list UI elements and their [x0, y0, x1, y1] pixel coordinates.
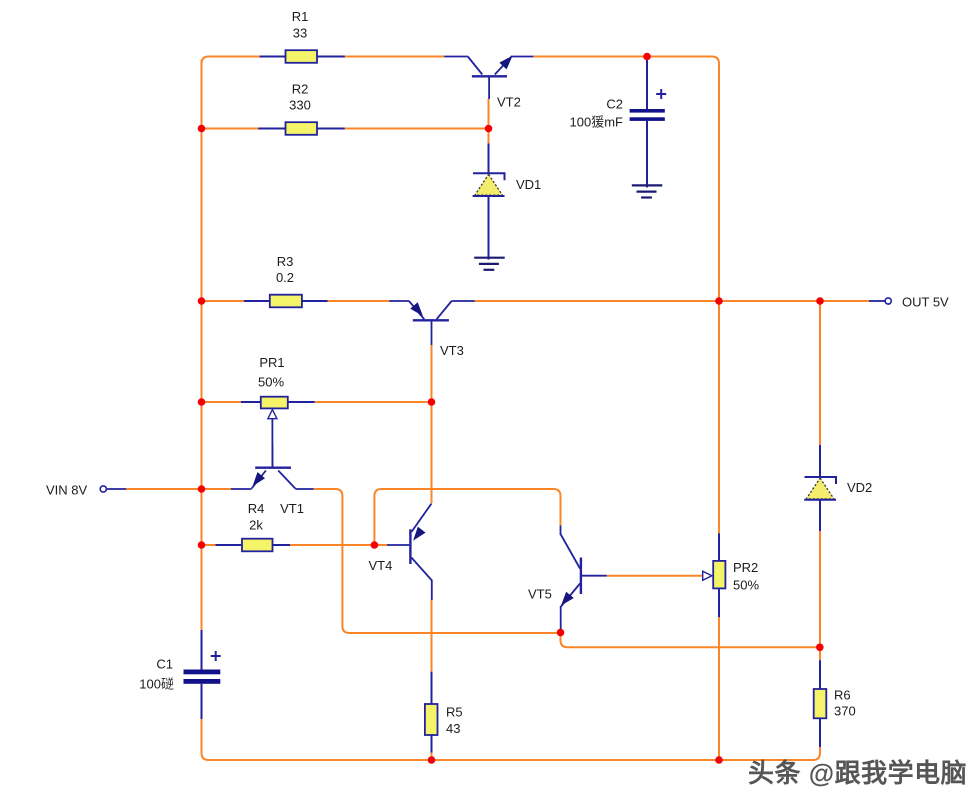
resistor R5 (vertical) [425, 672, 438, 753]
wire R2 net left segment [202, 128, 259, 130]
junction dot R4/VT4 base/wire B [371, 541, 379, 549]
svg-text:R6: R6 [834, 688, 851, 703]
svg-text:R4: R4 [248, 501, 265, 516]
junction dot R4/left rail [198, 541, 206, 549]
svg-text:头条 @跟我学电脑: 头条 @跟我学电脑 [748, 758, 967, 788]
wire R6 node to R6 top lead [819, 647, 821, 660]
svg-text:PR2: PR2 [733, 560, 758, 575]
ground symbol below C2 [632, 121, 663, 198]
potentiometer PR2 (vertical) [703, 533, 726, 617]
wire VIN terminal to left rail [126, 488, 231, 490]
junction dot VT2 base/R2/VD1 [485, 125, 493, 133]
svg-text:370: 370 [834, 704, 856, 719]
wire A: VT1 collector down and across to VT5 emitter node [314, 489, 561, 633]
terminal VIN 8V [100, 486, 126, 492]
wire VT3 base down to node [431, 345, 433, 402]
junction dot C2 tap on top rail [643, 53, 651, 61]
resistor R3 [244, 295, 327, 308]
resistor R2 [258, 122, 345, 135]
capacitor C2 (polarized) [630, 57, 667, 188]
wire OUT net VT3 collector to OUT terminal [475, 300, 869, 302]
wire PR1 net left segment [202, 401, 242, 403]
svg-text:VT3: VT3 [440, 343, 464, 358]
svg-text:330: 330 [289, 98, 311, 113]
svg-text:C1: C1 [156, 657, 173, 672]
wire VT5 base to PR2 wiper [607, 575, 703, 577]
junction dot PR1 right/VT3 base [428, 398, 436, 406]
wire top rail C2 tap to right corner down to OUT node [647, 57, 719, 302]
svg-text:VT4: VT4 [369, 558, 393, 573]
wire R4 net left segment [202, 544, 216, 546]
svg-text:33: 33 [293, 26, 307, 41]
svg-text:R5: R5 [446, 705, 463, 720]
svg-text:2k: 2k [249, 518, 263, 533]
junction dot PR1/left rail [198, 398, 206, 406]
transistor VT3 (in OUT rail, base down, mirrored) [389, 301, 475, 345]
zener diode VD2 [804, 445, 836, 531]
junction dot R2/left rail [198, 125, 206, 133]
potentiometer PR1 [241, 397, 315, 468]
wire node down to VT4 collector [431, 402, 433, 503]
ground symbol below VD1 [474, 258, 505, 270]
transistor VT4 (base left, vertical bar) [387, 504, 432, 601]
wire node to VT4 base [374, 544, 387, 546]
terminal OUT 5V [869, 298, 891, 304]
svg-text:VIN 8V: VIN 8V [46, 483, 88, 498]
wire middle rail OUT node to PR2 top [718, 301, 720, 533]
svg-text:100磀: 100磀 [139, 677, 174, 692]
wire right rail OUT node to VD2 [819, 301, 821, 445]
wire VT2 base to node [488, 99, 490, 129]
junction dot R6 top [816, 644, 824, 652]
junction dot R5 bottom rail [428, 756, 436, 764]
transistor VT2 (in top rail, base down) [444, 57, 533, 100]
svg-text:50%: 50% [733, 578, 759, 593]
junction dot OUT/right rail [816, 297, 824, 305]
wire top rail from left corner to VT2 collector [202, 57, 445, 65]
wire R5 bottom lead to bottom rail [431, 753, 433, 761]
wire middle rail PR2 bottom to bottom rail [718, 617, 720, 760]
resistor R4 [216, 539, 291, 552]
svg-text:OUT 5V: OUT 5V [902, 295, 949, 310]
svg-text:0.2: 0.2 [276, 270, 294, 285]
svg-text:R3: R3 [277, 254, 294, 269]
resistor R6 (vertical) [814, 660, 827, 747]
svg-text:PR1: PR1 [259, 355, 284, 370]
junction dot middle rail bottom [715, 756, 723, 764]
wire node to VD1 anode lead [488, 129, 490, 144]
wire left rail upper [201, 60, 203, 630]
wire R2 net right segment to VT2 base node [345, 128, 489, 130]
svg-text:VT2: VT2 [497, 95, 521, 110]
svg-text:VD2: VD2 [847, 480, 872, 495]
junction dot VIN/left rail [198, 485, 206, 493]
wire PR1 right terminal to VT3 base node [315, 401, 432, 403]
wire OUT net left of R3 [202, 300, 245, 302]
resistor R1 [260, 50, 345, 63]
wire R4 right lead to node [290, 544, 374, 546]
svg-text:100猨mF: 100猨mF [570, 115, 624, 130]
capacitor C1 (polarized) [184, 630, 221, 719]
svg-text:C2: C2 [606, 97, 623, 112]
svg-text:R2: R2 [292, 82, 309, 97]
wire VD2 anode to R6 node [819, 531, 821, 647]
transistor VT1 (in VIN rail, base up to PR1 wiper) [231, 445, 314, 489]
zener diode VD1 [473, 144, 505, 260]
junction dot OUT net/left rail [198, 297, 206, 305]
transistor VT5 (base right to PR2, vertical bar) [561, 526, 607, 633]
svg-text:50%: 50% [258, 375, 284, 390]
wire OUT net R3 to VT3 [328, 300, 390, 302]
svg-text:R1: R1 [292, 9, 309, 24]
svg-text:VT5: VT5 [528, 587, 552, 602]
wire top rail VT2 emitter to C2 tap [533, 56, 647, 58]
svg-text:VD1: VD1 [516, 177, 541, 192]
wire left rail below C1, bottom rail, up to R6 bottom lead [202, 719, 821, 760]
wire VT5 emitter node jog to R6 top node [561, 633, 820, 648]
junction dot VT5 emitter/wire A [557, 629, 565, 637]
svg-text:VT1: VT1 [280, 501, 304, 516]
wire B: R4 node up across to VT5 collector [374, 489, 560, 545]
junction dot OUT/middle rail [715, 297, 723, 305]
wire VT4 emitter down to R5 [431, 600, 433, 672]
svg-text:43: 43 [446, 721, 460, 736]
